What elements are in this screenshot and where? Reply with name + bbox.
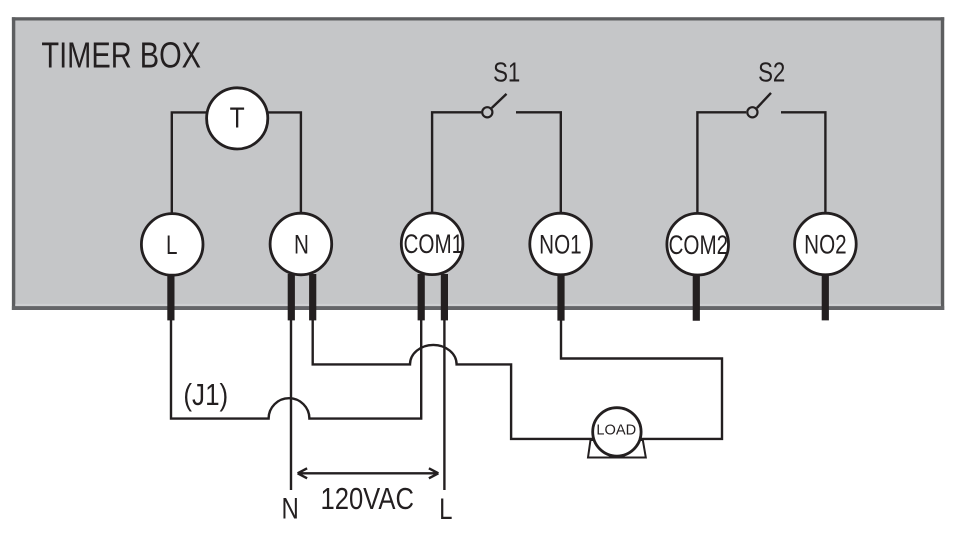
terminal pin N-1 (288, 274, 295, 320)
switch S2 blade (757, 93, 771, 108)
wire N pin 1 to supply N (290, 319, 292, 490)
wire N pin 2 to LOAD (313, 319, 593, 439)
wire COM1 to switch S1 (432, 112, 481, 216)
svg-text:COM2: COM2 (668, 230, 728, 260)
terminal L (141, 214, 203, 276)
svg-text:NO1: NO1 (539, 230, 581, 260)
terminal N (270, 213, 332, 275)
terminal pin NO1 (557, 274, 564, 321)
terminal pin N-2 (309, 274, 316, 320)
svg-text:S1: S1 (493, 57, 520, 88)
timer box right border (941, 17, 944, 310)
switch S1 blade (492, 94, 507, 108)
svg-text:(J1): (J1) (183, 378, 228, 413)
svg-text:T: T (230, 102, 245, 134)
wire jumper J1 from L pin to COM1 pin (171, 319, 421, 419)
wire switch S2 to NO2 (781, 112, 825, 216)
svg-text:120VAC: 120VAC (320, 482, 413, 516)
timer box top border (12, 17, 944, 20)
load mount trapezoid (588, 440, 646, 458)
wire switch S1 to NO1 (516, 112, 561, 216)
terminal COM1 (401, 213, 463, 275)
terminal NO1 (530, 213, 592, 275)
timer box bottom border (12, 306, 944, 310)
timer box bottom inner highlight (15, 304, 941, 306)
svg-text:TIMER BOX: TIMER BOX (41, 34, 201, 75)
dimension arrow 120VAC (298, 468, 439, 478)
svg-text:L: L (166, 230, 177, 260)
switch S1 pivot (482, 107, 492, 117)
terminal NO2 (795, 213, 857, 275)
timer box left border (12, 17, 15, 310)
timer motor T (207, 88, 268, 149)
timer box enclosure (12, 17, 944, 310)
svg-text:LOAD: LOAD (596, 423, 636, 439)
wire T to L terminal (172, 112, 207, 216)
switch S2 pivot (747, 107, 757, 117)
load motor (593, 408, 641, 456)
svg-text:S2: S2 (758, 57, 785, 88)
terminal COM2 (667, 213, 729, 275)
svg-text:N: N (282, 491, 299, 525)
wire COM1 pin 2 to supply L (443, 319, 445, 490)
terminal pin COM1-1 (418, 274, 425, 320)
terminal pin COM2 (693, 274, 700, 321)
svg-text:L: L (439, 491, 452, 525)
terminal pin NO2 (822, 274, 829, 320)
svg-text:NO2: NO2 (804, 230, 846, 260)
terminal pin COM1-2 (441, 274, 448, 320)
wire COM2 to switch S2 (697, 112, 746, 216)
svg-text:N: N (294, 230, 309, 260)
svg-text:COM1: COM1 (403, 229, 463, 259)
wire T to N terminal (268, 112, 301, 216)
wire NO1 pin to LOAD (561, 319, 722, 439)
terminal pin L (167, 274, 174, 320)
